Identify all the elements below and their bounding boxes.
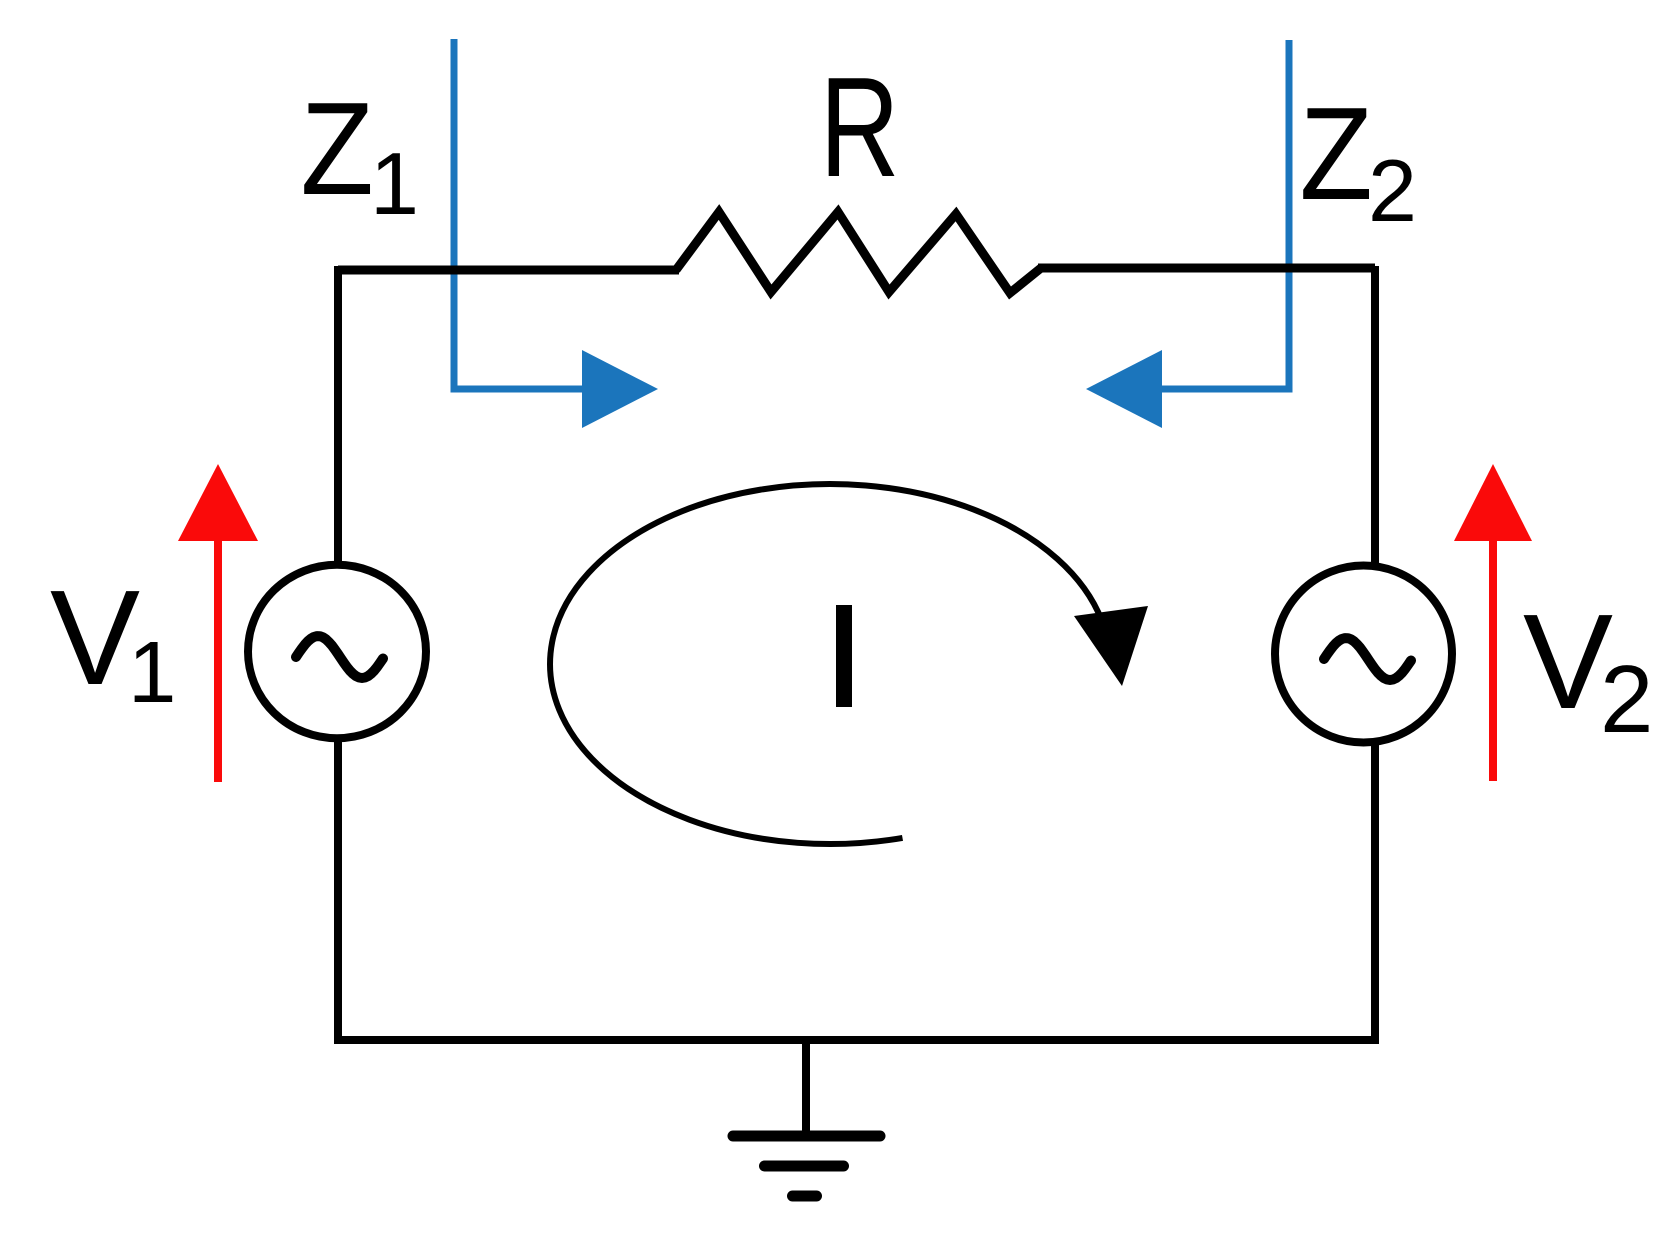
probe arrow Z1 [582,350,658,428]
wire left lower [334,740,342,1040]
svg-text:2: 2 [1368,141,1417,240]
label I [836,605,852,707]
svg-text:Z: Z [1299,80,1372,227]
wire right upper [1371,266,1379,566]
ground [733,1040,880,1196]
svg-text:R: R [820,48,900,206]
voltage arrow V1 [214,535,222,782]
wire top right segment [1038,264,1375,273]
wire right lower [1371,744,1379,1044]
svg-text:1: 1 [370,134,419,233]
wire bottom [334,1036,1375,1044]
svg-text:2: 2 [1600,646,1653,753]
probe arrow Z2 [1086,350,1162,428]
sine V2 [1324,638,1411,680]
probe line Z2 [1162,40,1289,389]
probe line Z1 [454,39,582,389]
svg-text:1: 1 [128,624,176,721]
svg-text:Z: Z [300,75,373,222]
loop current arc I [550,484,1102,844]
svg-text:V: V [50,562,140,713]
source V1 [248,565,426,739]
source V2 [1275,566,1452,743]
resistor R [676,212,1041,293]
wire left upper [334,266,342,564]
loop current arrowhead [1074,606,1148,686]
voltage arrow V2 [1489,535,1497,781]
wire top left segment [338,266,679,275]
sine V1 [296,636,383,678]
